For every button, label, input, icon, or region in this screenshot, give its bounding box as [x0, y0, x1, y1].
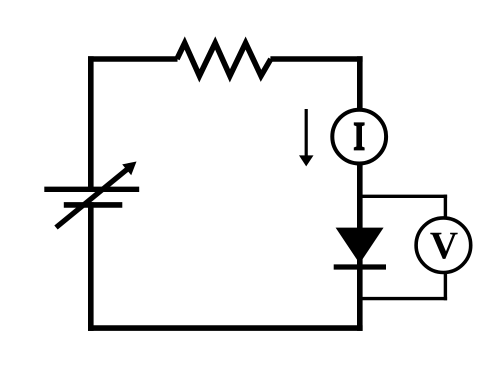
wire: left rail lower (battery negative lead) [88, 202, 94, 331]
resistor R1 [177, 43, 271, 76]
battery B1 variable-adjustment arrowhead [122, 162, 136, 176]
diode D1 cathode bar [334, 264, 386, 269]
wire: bottom rail [88, 325, 363, 331]
wire: left rail upper (battery positive lead) [88, 56, 94, 192]
battery B1 short plate (negative) [64, 202, 123, 208]
battery B1 variable-adjustment arrow shaft [56, 168, 129, 227]
voltmeter M2 label V [430, 233, 457, 259]
voltmeter M2 circle [416, 218, 471, 273]
wire: right rail lower (ammeter to diode to bottom rail) [357, 160, 363, 331]
battery B1 long plate (positive) [44, 187, 139, 192]
wire: right rail upper (into ammeter) [357, 56, 363, 114]
ammeter M1 label I [354, 122, 365, 150]
diode D1 anode triangle [336, 228, 384, 264]
wire: top rail left segment [88, 56, 178, 62]
wire: voltmeter branch right vertical [444, 195, 447, 301]
wire: voltmeter branch top [358, 195, 448, 198]
ammeter M1 circle [332, 110, 386, 164]
current direction arrowhead [299, 155, 314, 166]
current direction arrow shaft [305, 109, 308, 158]
wire: top rail right segment [270, 56, 362, 62]
wire: voltmeter branch bottom [358, 297, 448, 300]
